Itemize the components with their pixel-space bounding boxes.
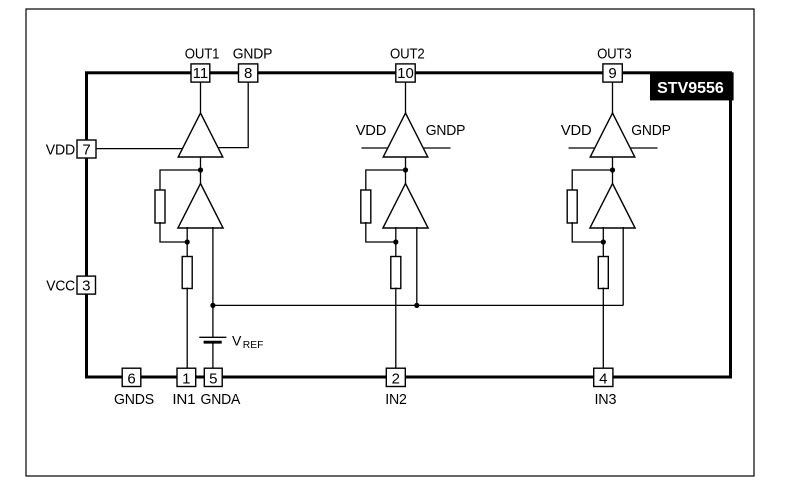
svg-text:5: 5: [209, 370, 217, 387]
wire OUT3 pin to amplifier A3 output stage: [612, 81, 614, 115]
wire R1b to IN1 pin: [186, 288, 188, 370]
op-amp A3 input stage: [590, 184, 635, 229]
resistor R2b input: [391, 257, 401, 289]
svg-text:GNDP: GNDP: [233, 45, 273, 62]
svg-text:GNDP: GNDP: [631, 122, 671, 139]
resistor R2a feedback: [361, 190, 371, 223]
svg-text:GNDA: GNDA: [201, 391, 241, 408]
part label STV9556: [650, 72, 734, 100]
wire VREF battery to GNDA pin 5: [212, 344, 214, 370]
svg-text:IN2: IN2: [385, 391, 407, 408]
pin 1 IN1: [177, 368, 196, 387]
svg-text:3: 3: [82, 278, 90, 295]
svg-text:V: V: [232, 332, 242, 348]
svg-text:2: 2: [392, 370, 400, 387]
svg-text:8: 8: [244, 65, 252, 82]
op-amp A2 input stage: [383, 184, 428, 229]
svg-text:OUT2: OUT2: [390, 45, 425, 62]
wire A3 output stage to A3 input stage: [612, 156, 614, 186]
resistor R1a feedback: [155, 190, 165, 223]
wire R2a to inverting input node: [366, 222, 396, 242]
svg-text:11: 11: [193, 65, 209, 82]
svg-text:IN3: IN3: [595, 391, 617, 408]
svg-text:GNDP: GNDP: [426, 122, 466, 139]
wire A2 output stage to A2 input stage: [405, 156, 407, 186]
pin 5 GNDA: [204, 368, 222, 387]
junction node A3 feedback tap: [610, 167, 615, 172]
svg-text:7: 7: [82, 142, 90, 159]
svg-text:VDD: VDD: [356, 122, 387, 139]
svg-text:6: 6: [127, 370, 135, 387]
op-amp A2 output stage: [383, 113, 428, 157]
pin 3 VCC: [77, 276, 96, 295]
wire A3 non-inverting input to VREF bus: [622, 227, 624, 305]
pin 10 OUT2: [396, 64, 415, 82]
svg-text:1: 1: [182, 370, 190, 387]
wire A3 inverting input: [602, 227, 604, 258]
wire R2b to IN2 pin: [395, 288, 397, 370]
svg-text:IN1: IN1: [172, 391, 195, 408]
wire VDD pin 7 to A1 output stage: [96, 148, 185, 150]
wire A1 non-inverting input to VREF: [212, 227, 214, 337]
wire A1 output stage to A1 input stage: [200, 156, 202, 186]
svg-text:10: 10: [397, 65, 414, 82]
pin 4 IN3: [594, 368, 613, 387]
junction node A3 inverting input: [601, 239, 606, 244]
op-amp A3 output stage: [590, 113, 635, 157]
wire R3a to inverting input node: [572, 222, 603, 242]
wire OUT1 pin to amplifier A1 output stage: [200, 81, 202, 115]
pin 8 GNDP: [239, 64, 258, 82]
svg-text:STV9556: STV9556: [657, 80, 724, 97]
GNDP rail stub A3: [629, 147, 658, 149]
pin 9 OUT3: [603, 64, 622, 82]
pin 2 IN2: [386, 368, 405, 387]
junction node A1 inverting input: [185, 239, 190, 244]
wire feedback tap to R3a: [572, 170, 612, 191]
wire A1 inverting input: [186, 227, 188, 258]
junction node A1 feedback tap: [198, 167, 203, 172]
wire R3b to IN3 pin: [602, 288, 604, 370]
svg-text:REF: REF: [243, 339, 264, 351]
GNDP rail stub A2: [422, 147, 451, 149]
wire A2 inverting input: [395, 227, 397, 258]
resistor R3a feedback: [567, 190, 577, 223]
wire OUT2 pin to amplifier A2 output stage: [405, 81, 407, 115]
wire A2 non-inverting input to VREF bus: [416, 227, 418, 305]
op-amp A1 output stage: [178, 113, 223, 157]
pin 11 OUT1: [191, 64, 210, 82]
resistor R3b input: [598, 257, 608, 289]
wire feedback tap to R2a: [366, 170, 406, 191]
svg-text:OUT1: OUT1: [185, 45, 220, 62]
svg-text:9: 9: [608, 65, 616, 82]
wire R1a to inverting input node: [160, 222, 187, 242]
junction node VREF bus at A2: [414, 303, 419, 308]
wire VREF reference bus: [213, 304, 623, 306]
voltage source VREF battery: [199, 337, 226, 342]
junction node A2 feedback tap: [403, 167, 408, 172]
svg-text:VDD: VDD: [46, 141, 76, 158]
VREF value label: [232, 332, 263, 351]
resistor R1b input: [182, 257, 192, 289]
svg-text:OUT3: OUT3: [597, 45, 632, 62]
svg-text:VDD: VDD: [561, 122, 592, 139]
VDD rail stub A3: [569, 147, 597, 149]
svg-text:VCC: VCC: [46, 277, 75, 294]
wire feedback tap to R1a: [160, 170, 201, 191]
svg-text:4: 4: [599, 370, 607, 387]
op-amp A1 input stage: [178, 184, 223, 229]
junction node A2 inverting input: [393, 239, 398, 244]
wire GNDP pin 8 to A1 output stage: [216, 81, 248, 148]
VDD rail stub A2: [362, 147, 390, 149]
IC body outline U1 STV9556: [87, 73, 731, 377]
svg-text:GNDS: GNDS: [114, 391, 154, 408]
pin 6 GNDS: [122, 368, 141, 387]
pin 7 VDD: [77, 140, 96, 159]
junction node VREF bus at A1: [210, 303, 215, 308]
